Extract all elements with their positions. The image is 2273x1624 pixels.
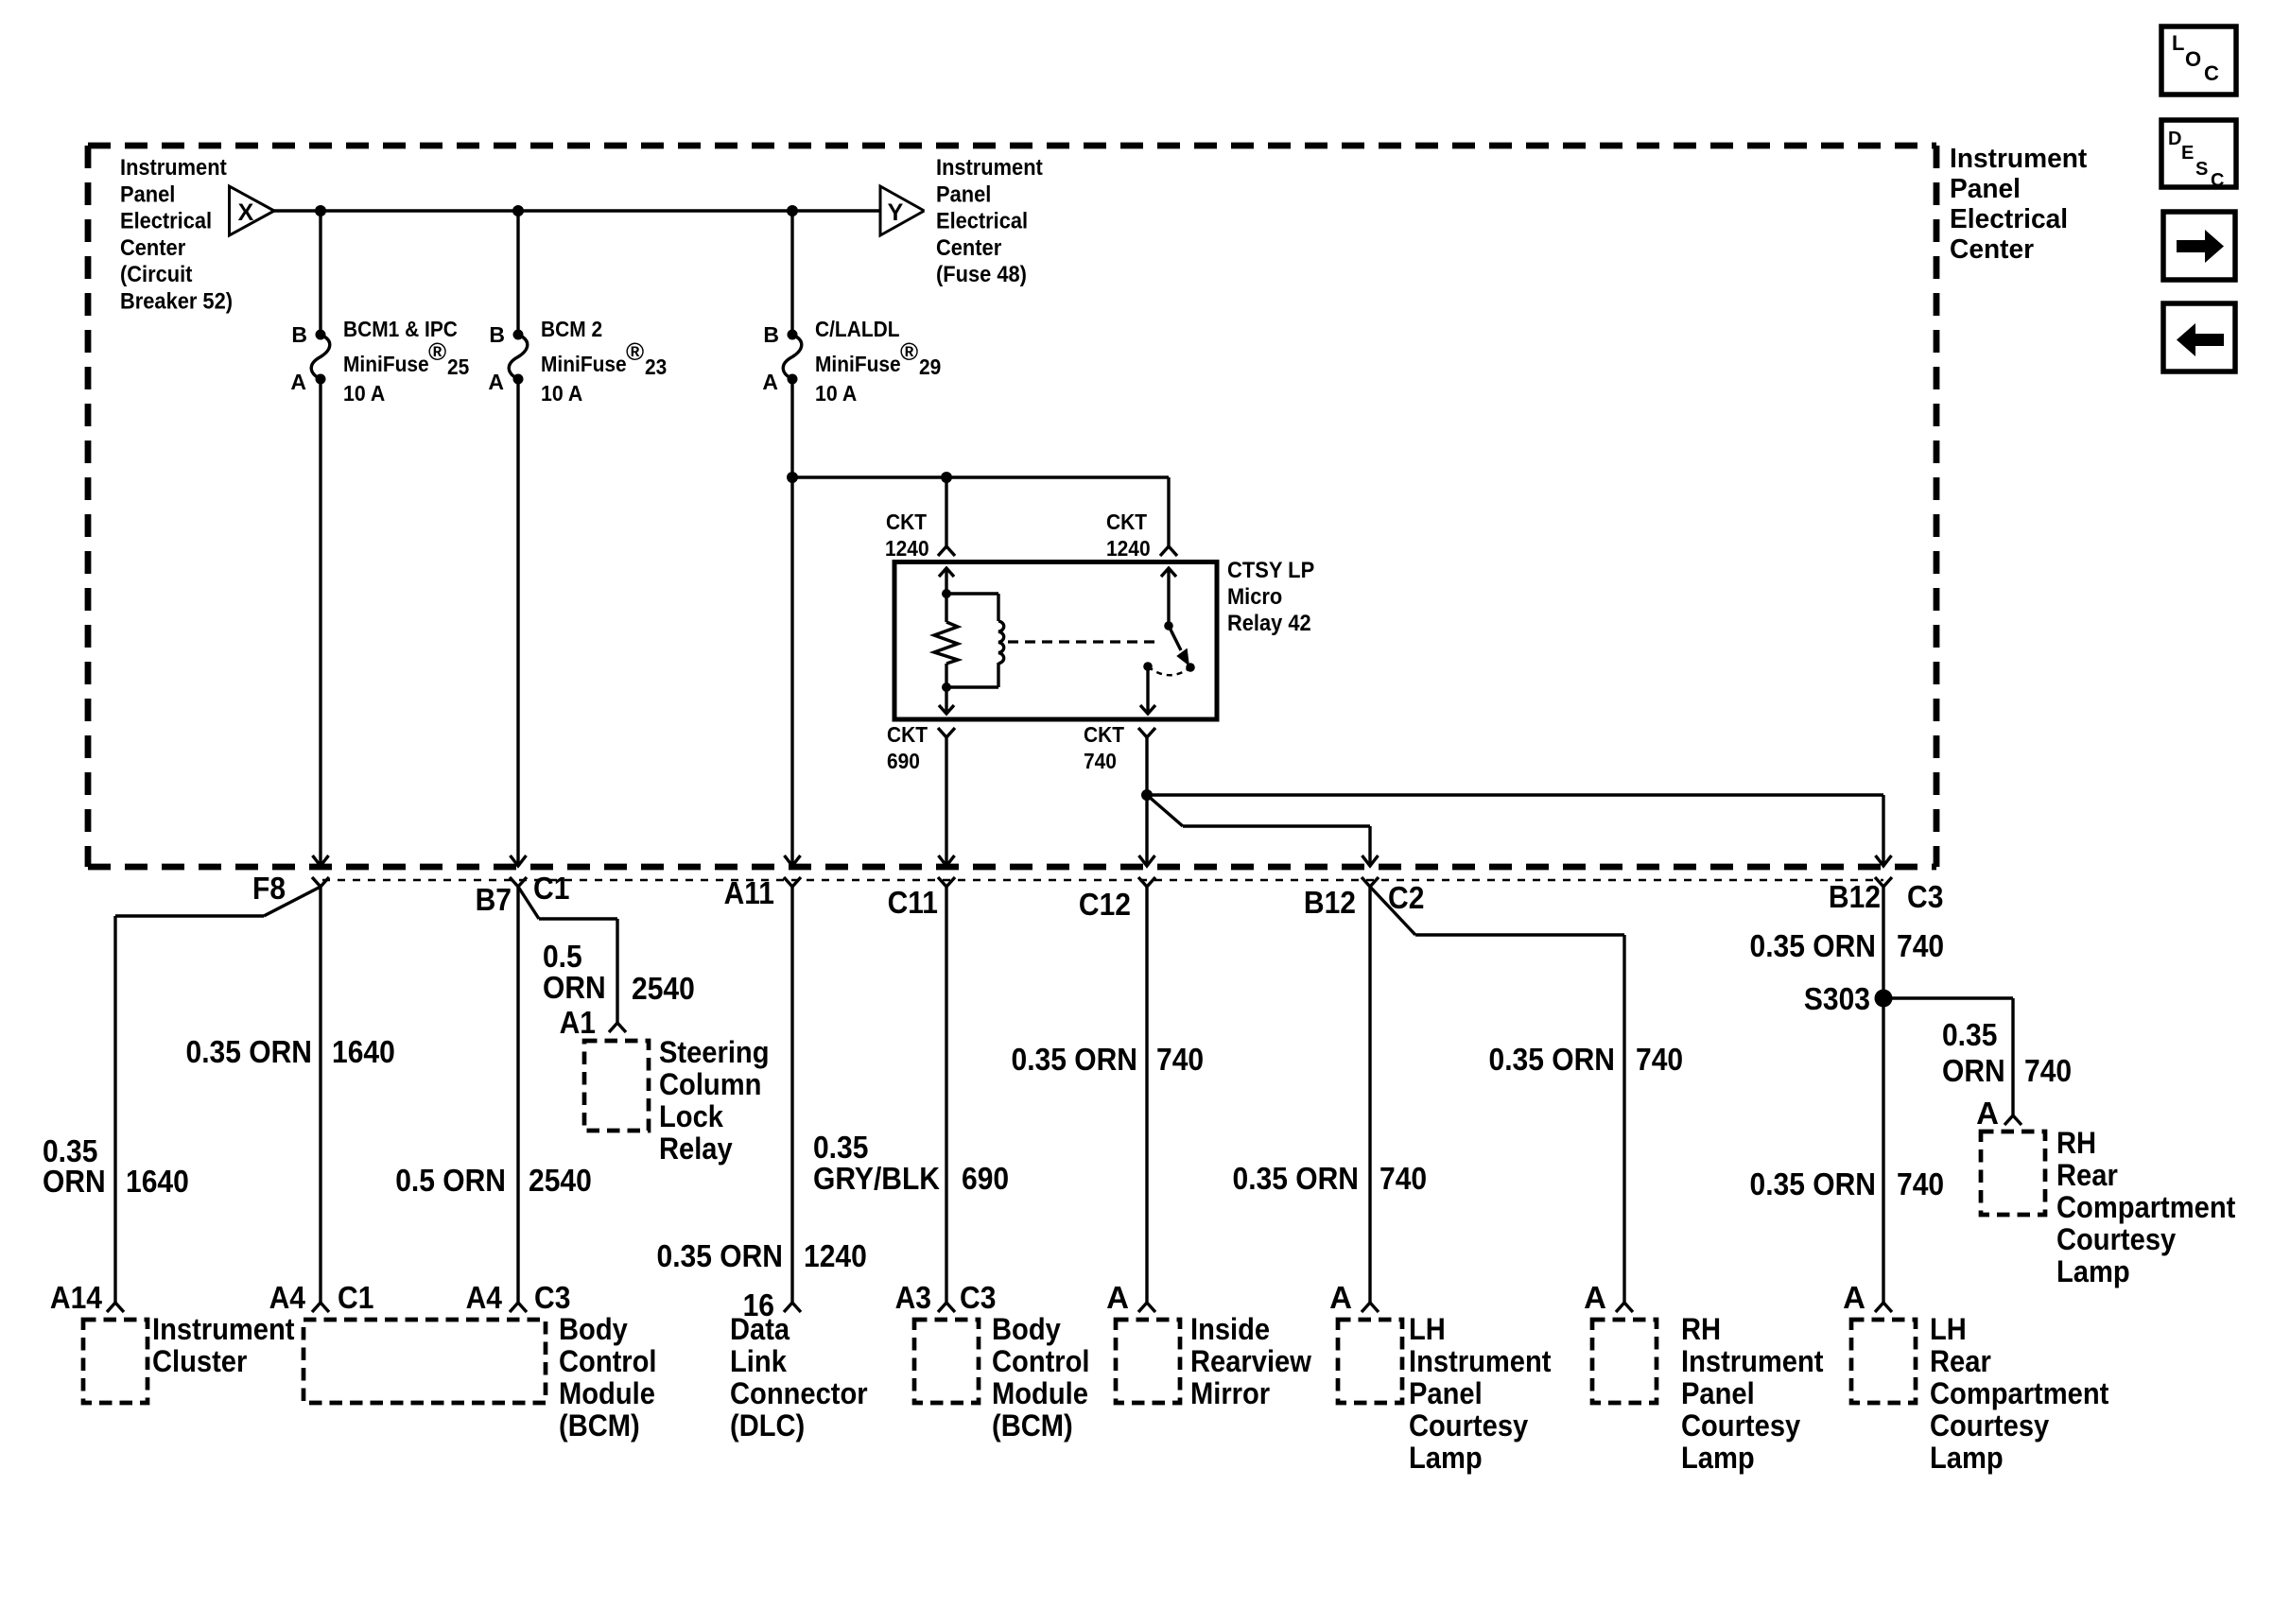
- svg-text:RH: RH: [1681, 1312, 1721, 1346]
- svg-text:A: A: [488, 370, 504, 394]
- svg-text:B: B: [763, 322, 779, 347]
- svg-text:Lamp: Lamp: [1681, 1441, 1755, 1475]
- svg-text:F8: F8: [252, 871, 286, 906]
- svg-text:CKT: CKT: [1106, 510, 1147, 534]
- svg-text:ORN: ORN: [543, 970, 606, 1005]
- svg-text:Instrument: Instrument: [1681, 1344, 1824, 1378]
- svg-text:B7: B7: [476, 882, 512, 917]
- svg-text:Module: Module: [559, 1376, 655, 1410]
- svg-text:Control: Control: [559, 1344, 657, 1378]
- svg-text:Body: Body: [559, 1312, 628, 1346]
- svg-text:(BCM): (BCM): [992, 1408, 1073, 1443]
- svg-text:C1: C1: [533, 871, 569, 906]
- svg-text:23: 23: [645, 354, 667, 379]
- svg-text:2540: 2540: [529, 1163, 592, 1198]
- svg-text:A: A: [1329, 1280, 1352, 1315]
- svg-text:2540: 2540: [632, 971, 695, 1006]
- svg-text:C/LALDL: C/LALDL: [815, 317, 900, 341]
- svg-text:CTSY LP: CTSY LP: [1227, 558, 1314, 583]
- svg-text:740: 740: [1379, 1161, 1427, 1196]
- svg-text:Panel: Panel: [1950, 174, 2021, 204]
- svg-text:Instrument: Instrument: [120, 155, 227, 181]
- svg-text:(DLC): (DLC): [730, 1408, 805, 1443]
- svg-text:Body: Body: [992, 1312, 1061, 1346]
- svg-text:CKT: CKT: [886, 510, 927, 534]
- svg-text:A: A: [762, 370, 778, 394]
- svg-text:740: 740: [1156, 1042, 1204, 1077]
- svg-text:0.5: 0.5: [543, 939, 582, 974]
- svg-text:Data: Data: [730, 1312, 789, 1346]
- svg-text:Mirror: Mirror: [1190, 1376, 1270, 1410]
- svg-text:Connector: Connector: [730, 1376, 868, 1410]
- svg-text:C12: C12: [1079, 887, 1131, 922]
- svg-text:690: 690: [887, 749, 920, 773]
- svg-text:®: ®: [900, 337, 918, 366]
- svg-text:B: B: [489, 322, 505, 347]
- svg-text:Electrical: Electrical: [936, 209, 1028, 234]
- svg-text:B12: B12: [1829, 879, 1881, 914]
- svg-text:740: 740: [1084, 749, 1117, 773]
- svg-text:Compartment: Compartment: [1930, 1376, 2109, 1410]
- svg-text:Lamp: Lamp: [1930, 1441, 2004, 1475]
- svg-text:Lock: Lock: [659, 1099, 723, 1133]
- svg-text:A: A: [1843, 1280, 1865, 1315]
- svg-text:LH: LH: [1930, 1312, 1967, 1346]
- svg-text:0.35: 0.35: [1942, 1017, 1997, 1052]
- svg-text:1240: 1240: [1106, 536, 1151, 561]
- svg-text:25: 25: [447, 354, 469, 379]
- svg-text:A4: A4: [466, 1280, 503, 1315]
- svg-text:0.35 ORN: 0.35 ORN: [1489, 1042, 1616, 1077]
- svg-text:10 A: 10 A: [541, 381, 582, 406]
- svg-text:1640: 1640: [126, 1164, 189, 1199]
- svg-text:ORN: ORN: [43, 1164, 106, 1199]
- svg-text:Courtesy: Courtesy: [1409, 1408, 1528, 1443]
- svg-text:Instrument: Instrument: [152, 1312, 295, 1346]
- svg-text:29: 29: [919, 354, 941, 379]
- svg-text:C3: C3: [1907, 879, 1943, 914]
- svg-text:C: C: [2204, 61, 2219, 85]
- svg-text:®: ®: [626, 337, 644, 366]
- svg-text:C: C: [2211, 170, 2224, 191]
- svg-text:LH: LH: [1409, 1312, 1446, 1346]
- svg-text:A: A: [290, 370, 306, 394]
- svg-text:Lamp: Lamp: [2056, 1254, 2130, 1288]
- svg-text:Link: Link: [730, 1344, 787, 1378]
- svg-text:740: 740: [1636, 1042, 1683, 1077]
- svg-text:Instrument: Instrument: [936, 155, 1043, 181]
- svg-text:GRY/BLK: GRY/BLK: [813, 1161, 940, 1196]
- svg-text:740: 740: [2024, 1053, 2072, 1088]
- svg-text:Micro: Micro: [1227, 584, 1282, 610]
- svg-text:X: X: [238, 199, 254, 226]
- svg-text:ORN: ORN: [1942, 1053, 2005, 1088]
- svg-text:CKT: CKT: [1084, 722, 1124, 747]
- svg-text:Breaker 52): Breaker 52): [120, 289, 233, 315]
- svg-text:A4: A4: [269, 1280, 306, 1315]
- svg-text:10 A: 10 A: [343, 381, 385, 406]
- svg-text:MiniFuse: MiniFuse: [541, 352, 627, 376]
- svg-text:MiniFuse: MiniFuse: [815, 352, 901, 376]
- svg-text:S303: S303: [1804, 981, 1870, 1016]
- svg-text:RH: RH: [2056, 1126, 2096, 1160]
- svg-text:Lamp: Lamp: [1409, 1441, 1483, 1475]
- svg-text:Steering: Steering: [659, 1035, 770, 1069]
- svg-text:Rear: Rear: [1930, 1344, 1991, 1378]
- svg-text:Center: Center: [1950, 234, 2034, 265]
- svg-text:L: L: [2172, 31, 2184, 55]
- svg-text:740: 740: [1897, 928, 1944, 963]
- svg-text:A: A: [1106, 1280, 1129, 1315]
- svg-text:Instrument: Instrument: [1409, 1344, 1552, 1378]
- svg-text:Panel: Panel: [936, 181, 991, 207]
- svg-text:0.35 ORN: 0.35 ORN: [1012, 1042, 1138, 1077]
- svg-text:1240: 1240: [885, 536, 929, 561]
- svg-text:C3: C3: [960, 1280, 996, 1315]
- svg-text:MiniFuse: MiniFuse: [343, 352, 429, 376]
- svg-text:0.35 ORN: 0.35 ORN: [1233, 1161, 1360, 1196]
- svg-text:Instrument: Instrument: [1950, 144, 2088, 174]
- svg-text:C3: C3: [534, 1280, 570, 1315]
- svg-text:0.5 ORN: 0.5 ORN: [395, 1163, 506, 1198]
- svg-text:1240: 1240: [804, 1238, 867, 1273]
- svg-text:O: O: [2185, 47, 2201, 71]
- svg-text:A1: A1: [560, 1005, 596, 1040]
- svg-text:Center: Center: [120, 235, 185, 261]
- svg-text:(Fuse 48): (Fuse 48): [936, 262, 1027, 287]
- svg-text:Y: Y: [888, 199, 904, 226]
- svg-text:Cluster: Cluster: [152, 1344, 247, 1378]
- svg-text:Inside: Inside: [1190, 1312, 1270, 1346]
- svg-text:D: D: [2168, 129, 2181, 149]
- svg-text:(BCM): (BCM): [559, 1408, 640, 1443]
- svg-text:690: 690: [962, 1161, 1009, 1196]
- svg-text:0.35 ORN: 0.35 ORN: [657, 1238, 784, 1273]
- svg-text:Panel: Panel: [1681, 1376, 1755, 1410]
- svg-text:Electrical: Electrical: [1950, 204, 2068, 234]
- svg-text:BCM 2: BCM 2: [541, 317, 602, 341]
- svg-text:S: S: [2195, 159, 2208, 180]
- svg-text:A3: A3: [895, 1280, 931, 1315]
- svg-text:Courtesy: Courtesy: [1681, 1408, 1800, 1443]
- svg-text:Relay 42: Relay 42: [1227, 611, 1311, 636]
- svg-text:A11: A11: [724, 875, 774, 910]
- svg-text:B: B: [291, 322, 307, 347]
- svg-text:A: A: [1584, 1280, 1606, 1315]
- svg-text:E: E: [2181, 143, 2194, 164]
- svg-text:A: A: [1976, 1096, 1999, 1131]
- svg-text:CKT: CKT: [887, 722, 928, 747]
- svg-text:0.35: 0.35: [813, 1130, 868, 1165]
- svg-text:0.35 ORN: 0.35 ORN: [186, 1034, 313, 1069]
- svg-text:Panel: Panel: [1409, 1376, 1483, 1410]
- svg-text:Panel: Panel: [120, 181, 175, 207]
- svg-text:Column: Column: [659, 1067, 761, 1101]
- svg-text:Center: Center: [936, 235, 1001, 261]
- svg-text:Courtesy: Courtesy: [1930, 1408, 2049, 1443]
- svg-text:Relay: Relay: [659, 1132, 733, 1166]
- svg-text:10 A: 10 A: [815, 381, 857, 406]
- svg-text:Compartment: Compartment: [2056, 1190, 2236, 1224]
- svg-text:C1: C1: [338, 1280, 373, 1315]
- svg-text:®: ®: [428, 337, 446, 366]
- svg-text:Courtesy: Courtesy: [2056, 1222, 2176, 1256]
- svg-text:A14: A14: [50, 1280, 103, 1315]
- svg-text:1640: 1640: [332, 1034, 395, 1069]
- svg-text:Module: Module: [992, 1376, 1088, 1410]
- svg-text:0.35 ORN: 0.35 ORN: [1750, 1166, 1877, 1201]
- svg-text:Control: Control: [992, 1344, 1090, 1378]
- svg-text:Rearview: Rearview: [1190, 1344, 1311, 1378]
- svg-text:(Circuit: (Circuit: [120, 262, 192, 287]
- svg-text:Electrical: Electrical: [120, 209, 212, 234]
- svg-text:Rear: Rear: [2056, 1158, 2118, 1192]
- svg-text:740: 740: [1897, 1166, 1944, 1201]
- svg-text:C11: C11: [888, 885, 938, 920]
- svg-text:0.35 ORN: 0.35 ORN: [1750, 928, 1877, 963]
- svg-text:B12: B12: [1304, 885, 1356, 920]
